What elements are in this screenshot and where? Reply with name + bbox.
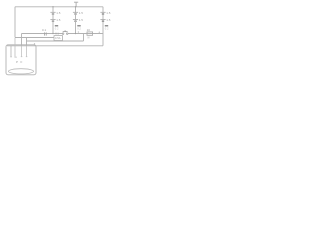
cell BT4 [73, 18, 83, 22]
electrode E2 [14, 38, 17, 57]
svg-text:1.5: 1.5 [56, 11, 61, 15]
wire top rail [15, 6, 103, 8]
svg-text:W: W [87, 36, 90, 40]
svg-text:1.5: 1.5 [79, 18, 84, 22]
svg-text:0.2: 0.2 [105, 27, 109, 31]
cell BT3 [73, 11, 83, 15]
svg-text:1.5: 1.5 [106, 18, 111, 22]
wire branch 2 [75, 7, 77, 34]
cell BT2 [50, 18, 60, 22]
power flag VCC [74, 2, 78, 7]
cell BT5 [100, 11, 110, 15]
wire left drop [14, 7, 16, 38]
switch S1 key [62, 30, 68, 34]
wire stub to bus [83, 34, 85, 42]
wire rail B [15, 37, 54, 39]
capacitor C1 [42, 28, 47, 35]
junction dots [52, 6, 76, 34]
cell BT1 [50, 11, 60, 15]
wire rail D return [7, 45, 103, 47]
svg-text:0.1: 0.1 [55, 32, 59, 36]
wire rail C [27, 40, 84, 42]
electrode E1 [10, 46, 12, 57]
cell BT6 [100, 18, 110, 22]
svg-text:0.2: 0.2 [77, 27, 81, 31]
electrode E4 [26, 46, 28, 57]
label I3 [105, 25, 108, 26]
svg-text:0.5A: 0.5A [55, 36, 61, 40]
svg-text:1.5: 1.5 [106, 11, 111, 15]
wire main bus [22, 33, 104, 35]
wire drop A [21, 34, 23, 46]
beaker [6, 45, 36, 75]
resistor R1 [87, 28, 93, 39]
wire branch 1 [52, 7, 54, 34]
component box U1 [54, 36, 63, 41]
svg-text:0.2: 0.2 [55, 27, 59, 31]
svg-text:1.5: 1.5 [56, 18, 61, 22]
svg-text:F: F [21, 60, 23, 64]
svg-text:P: P [16, 60, 18, 64]
svg-text:1.5: 1.5 [79, 11, 84, 15]
wire right drop [102, 7, 104, 46]
wire drop B [26, 38, 28, 46]
svg-text:10: 10 [87, 28, 91, 32]
label I1 [55, 25, 58, 26]
svg-text:0.1: 0.1 [42, 28, 47, 32]
electrode E3 [21, 46, 23, 57]
label I2 [77, 25, 80, 26]
liquid level [8, 69, 33, 74]
